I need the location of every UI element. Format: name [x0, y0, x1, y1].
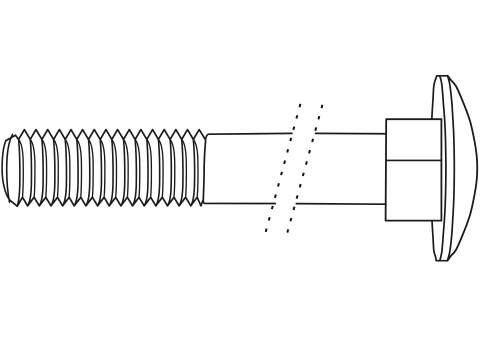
thread pair 10 root line right: [124, 139, 129, 197]
shank bottom line right segment: [296, 203, 386, 206]
shank top line left segment: [205, 133, 292, 139]
thread pair 9 root line right: [112, 139, 117, 197]
thread pair 7 root line right: [89, 139, 94, 197]
square neck corner line: [386, 159, 441, 161]
thread pair 16 root line right: [193, 139, 198, 197]
thread pair 9 root line left: [109, 139, 113, 205]
thread pair 15 root line right: [182, 139, 187, 197]
bolt tip chamfer arc (inner): [7, 135, 13, 203]
thread pair 4 root line left: [51, 139, 55, 205]
thread pair 13 root line right: [158, 139, 163, 197]
thread pair 10 root line left: [121, 139, 125, 205]
thread crest zigzag bottom: [10, 197, 203, 206]
shank bottom line left segment: [203, 199, 275, 204]
head rim arc (right): [447, 76, 454, 261]
thread pair 2 root line left: [28, 139, 32, 205]
thread pair 5 root line left: [63, 139, 67, 205]
thread pair 11 root line left: [133, 139, 137, 205]
head rim arc (middle): [440, 76, 446, 261]
thread pair 14 root line left: [168, 139, 172, 205]
thread pair 3 root line right: [42, 139, 47, 197]
thread pair 14 root line right: [170, 139, 175, 197]
thread pair 1 root line left: [17, 139, 20, 206]
thread pair 2 root line right: [30, 139, 35, 197]
head flat top: [437, 75, 448, 77]
square neck: [386, 119, 442, 220]
bolt tip edge: [6, 135, 16, 140]
thread pair 15 root line left: [179, 139, 183, 205]
thread pair 4 root line right: [54, 139, 59, 197]
shank top line right segment: [316, 132, 387, 134]
thread pair 12 root line right: [147, 139, 152, 197]
thread pair 8 root line left: [98, 139, 102, 205]
thread pair 1 root line right: [19, 139, 24, 197]
bolt tip chamfer arc (outer): [2, 141, 10, 201]
thread pair 3 root line left: [39, 139, 43, 205]
thread pair 16 root line left: [191, 139, 195, 205]
thread pair 7 root line left: [86, 139, 90, 205]
head outer dome silhouette: [447, 76, 477, 261]
thread pair 8 root line right: [100, 139, 105, 197]
thread pair 5 root line right: [65, 139, 70, 197]
thread pair 12 root line left: [144, 139, 148, 205]
break line right (dotted): [287, 105, 322, 234]
thread pair 11 root line right: [135, 139, 140, 197]
thread pair 13 root line left: [156, 139, 160, 205]
thread pair 6 root line left: [74, 139, 78, 205]
head flat bottom: [436, 260, 447, 262]
thread run-out arc: [203, 141, 205, 200]
break line left (dotted): [265, 104, 300, 234]
head rim arc (left, behind neck): [431, 76, 437, 261]
thread crest zigzag top: [15, 130, 205, 140]
thread pair 6 root line right: [77, 139, 82, 197]
